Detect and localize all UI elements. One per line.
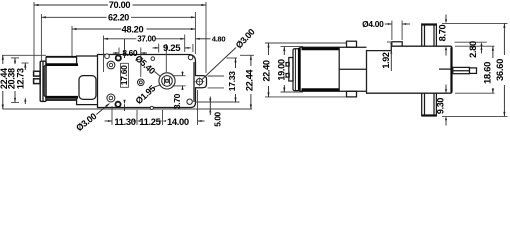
gearbox right edge inner line — [193, 62, 195, 102]
wire: 19.00 bottom extension — [281, 91, 304, 93]
dim 17.60 boxed — [119, 39, 129, 111]
dim Φ4.00 — [362, 19, 410, 40]
label Φ5.40 with leader — [133, 53, 160, 76]
svg-text:1.92: 1.92 — [381, 52, 391, 68]
gearbox body (top view) — [367, 46, 453, 93]
gearbox plate outline — [98, 55, 207, 108]
output shaft circles — [159, 73, 175, 89]
small hole top-right corner — [188, 55, 193, 60]
wire: top shaft tip ext — [442, 22, 508, 24]
dim 22.44 right — [240, 55, 255, 109]
bottom output shaft — [422, 93, 437, 116]
svg-text:17.60: 17.60 — [119, 65, 129, 85]
svg-text:62.20: 62.20 — [108, 13, 129, 23]
dim 70.00 — [34, 0, 206, 73]
motor brush cap (top view) — [293, 49, 299, 91]
bottom-left washer hole double — [107, 94, 115, 102]
svg-text:22.44: 22.44 — [245, 69, 255, 91]
wire: bottom shaft tip ext — [442, 115, 508, 117]
top-left screw hole small — [105, 54, 110, 59]
dim 4.80 — [180, 34, 225, 52]
dim 12.73 — [16, 63, 29, 104]
dim 1.92 — [381, 42, 393, 71]
svg-text:36.60: 36.60 — [495, 59, 506, 81]
dim 9.30 — [435, 85, 447, 126]
tiny hole top edge — [151, 57, 155, 61]
svg-text:12.73: 12.73 — [16, 68, 26, 89]
svg-text:48.20: 48.20 — [122, 24, 144, 34]
boss bump on gearbox top — [392, 42, 402, 46]
dim 20.38 — [6, 58, 19, 103]
wire: 19.00 top extension — [281, 46, 304, 48]
wire: tab top/bottom witness lines — [208, 75, 225, 77]
top-left washer hole double — [107, 61, 115, 69]
wire: gearbox bottom ext — [455, 92, 495, 94]
wire: boss level ext — [455, 41, 487, 43]
dim 5.00 — [209, 97, 222, 127]
dim 22.40 — [261, 43, 271, 97]
wire: gearbox top ext — [455, 45, 495, 47]
small hole bottom-right — [187, 99, 192, 104]
bottom-left bolt hole bold — [115, 102, 120, 107]
label Φ1.95 with leader — [134, 83, 161, 106]
axis line between can and gearbox — [339, 68, 366, 70]
motor can (top view) — [299, 47, 366, 91]
wire: 22.40 top extension — [265, 42, 346, 44]
dim 19.00 — [277, 47, 287, 92]
svg-text:19.00: 19.00 — [277, 59, 287, 80]
motor brush cap — [40, 61, 46, 101]
dim 8.60 — [113, 48, 147, 78]
svg-text:Ø4.00: Ø4.00 — [362, 19, 384, 29]
bracket white rounded rectangle detail — [79, 76, 96, 100]
svg-text:11.25: 11.25 — [139, 116, 160, 127]
pinion shaft stub right — [453, 67, 477, 73]
motor terminal block bump — [289, 58, 293, 82]
svg-text:9.30: 9.30 — [435, 98, 445, 114]
top output shaft — [422, 23, 437, 46]
wire: top-left extension line — [2, 54, 46, 56]
gearbox motor bracket — [77, 56, 98, 105]
dim row 11.30 / 11.25 / 14.00 — [105, 90, 205, 127]
svg-text:37.00: 37.00 — [137, 35, 156, 44]
dim 17.33 — [195, 58, 240, 102]
dim 22.44 left — [0, 55, 9, 109]
svg-text:18.60: 18.60 — [482, 62, 493, 84]
top-left bolt hole bold — [116, 55, 121, 60]
dim 48.20 — [72, 12, 195, 56]
svg-text:9.25: 9.25 — [163, 43, 181, 54]
label Φ3.00 bottom with leader — [74, 104, 109, 134]
dim 2.80 — [468, 41, 483, 58]
svg-text:5.00: 5.00 — [213, 111, 222, 126]
tiny hole bottom edge — [150, 106, 153, 109]
center small hole double — [138, 79, 145, 86]
tab mounting hole with crosshair — [195, 77, 205, 86]
svg-text:4.80: 4.80 — [212, 34, 226, 43]
crimp tab bottom — [347, 91, 357, 97]
wire: 22.40 bottom extension — [265, 96, 352, 98]
motor can body — [44, 57, 78, 101]
dim 36.60 — [495, 23, 506, 116]
svg-text:11.30: 11.30 — [114, 116, 135, 127]
wire: long bottom extension line — [3, 108, 253, 110]
svg-text:14.00: 14.00 — [167, 116, 189, 127]
axis line right segment — [439, 68, 452, 70]
dim 9.25 — [153, 43, 193, 72]
label Φ3.00 top with leader — [202, 27, 257, 80]
dim 62.20 — [41, 13, 195, 63]
dim 18.60 — [482, 46, 494, 93]
dim 37.00 — [104, 35, 185, 72]
svg-text:2.80: 2.80 — [468, 41, 478, 58]
svg-text:3.70: 3.70 — [172, 93, 182, 109]
motor terminal tabs — [34, 71, 40, 83]
svg-text:17.33: 17.33 — [227, 71, 237, 91]
dim 3.70 — [172, 72, 186, 110]
svg-text:22.40: 22.40 — [261, 60, 271, 81]
motor terminal nubs — [286, 63, 289, 67]
dim 8.70 — [438, 15, 448, 56]
svg-text:70.00: 70.00 — [109, 0, 131, 10]
crimp tab top — [347, 41, 357, 47]
svg-text:8.70: 8.70 — [438, 24, 448, 41]
